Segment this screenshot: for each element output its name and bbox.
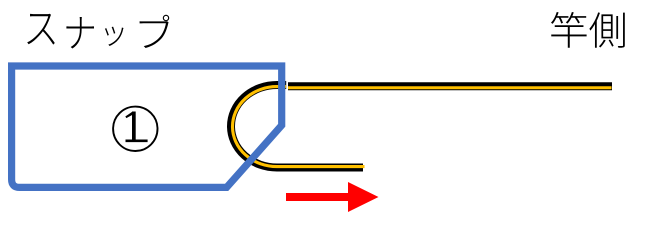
wire: rod-side line (black) xyxy=(288,82,612,90)
wire: loop through snap (yellow core) xyxy=(233,87,365,167)
wire: loop through snap (black) xyxy=(231,85,363,168)
circled number 1: digit xyxy=(132,112,136,140)
red arrow (pull direction) xyxy=(286,182,379,212)
snap clip outline (blue) xyxy=(12,66,282,187)
wire: rod-side line (yellow core) xyxy=(288,86,612,89)
label text スナップ (snap) xyxy=(27,14,169,49)
label text 竿側 (rod side) xyxy=(551,12,625,48)
circled number 1: circle xyxy=(113,107,157,151)
